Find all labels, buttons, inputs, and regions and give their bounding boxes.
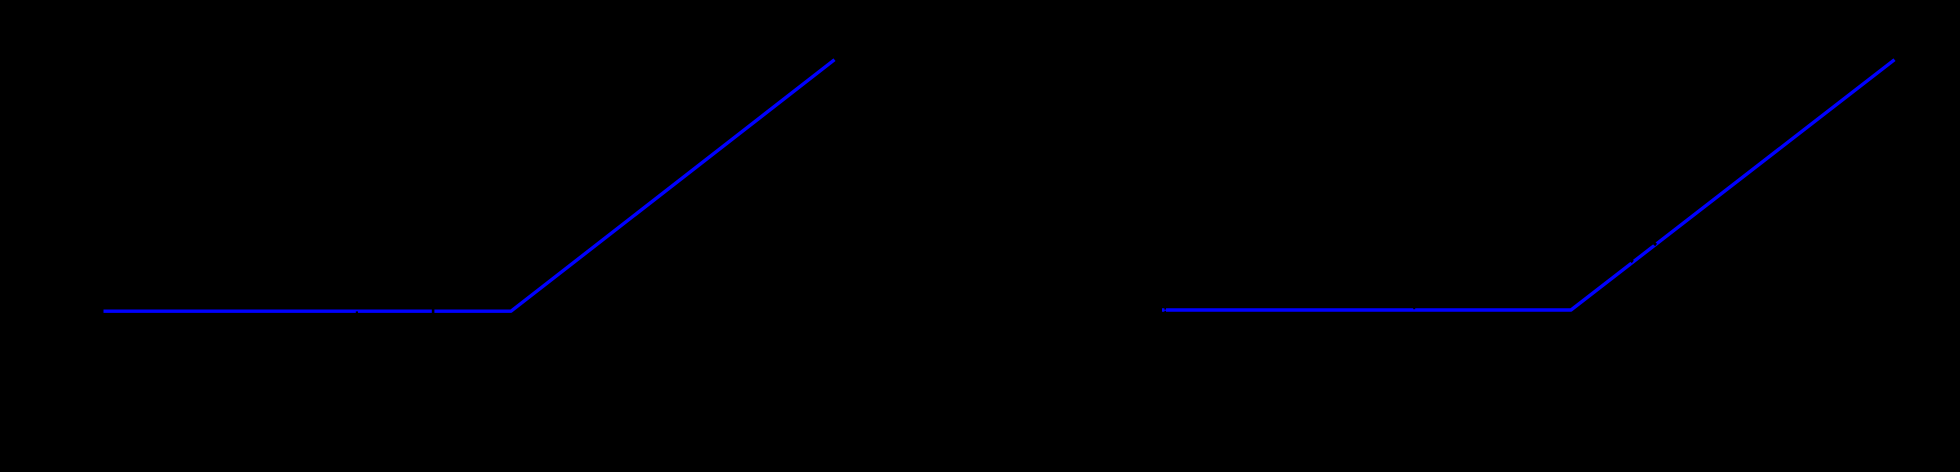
small black nick on right rising segment at (1632,261) bbox=[1630, 259, 1634, 263]
small black nick on right flat segment at x=1414 bbox=[1413, 308, 1415, 310]
small black nick on left flat segment at x=357 bbox=[356, 311, 358, 313]
black gap overlap on left flat segment at x=433 bbox=[432, 307, 435, 315]
small black nick on right rising segment at (1655,245) bbox=[1653, 242, 1657, 246]
small black nick near right flat segment start x=1165 bbox=[1164, 307, 1166, 310]
right ReLU curve (blue) bbox=[1162, 60, 1895, 310]
left ReLU curve (blue) bbox=[104, 60, 835, 312]
